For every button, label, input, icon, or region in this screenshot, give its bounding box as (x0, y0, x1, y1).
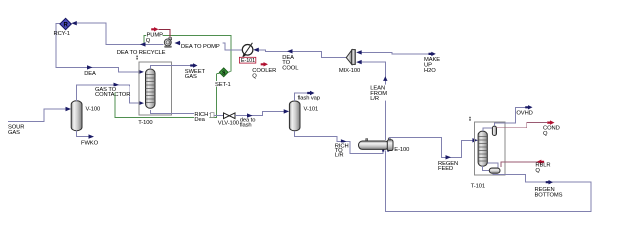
svg-text:DEA TO POMP: DEA TO POMP (181, 44, 220, 50)
wire DEA TO COOL (MIX-100 to E-101) (253, 48, 346, 58)
svg-text:H2O: H2O (424, 68, 436, 74)
heat exchanger E-100 (359, 138, 394, 152)
svg-text:L/R: L/R (370, 96, 379, 102)
label RICH TO L/R (334, 142, 349, 158)
label MAKE UP H2O (424, 57, 440, 74)
label LEAN FROM L/R (370, 85, 387, 102)
svg-text:T-100: T-100 (138, 120, 152, 126)
label RICH Dea (194, 111, 210, 123)
wire RICH Dea (T-100 bottoms to VLV-100) (150, 110, 223, 116)
wire dea to flash (VLV-100 to V-101) (235, 109, 289, 118)
wire OVHD (T-101 overhead) (495, 105, 533, 126)
separator V-100 (71, 101, 82, 131)
svg-text:MIX-100: MIX-100 (339, 68, 360, 74)
svg-text:E-101: E-101 (241, 58, 255, 64)
mixer MIX-100 (346, 50, 355, 65)
label DEA TO RECYCLE (117, 49, 168, 56)
label E-101 (red box) (239, 57, 255, 64)
set attach nub on rich line (211, 113, 214, 118)
svg-text:FEED: FEED (438, 166, 453, 172)
flash drum V-101 (289, 101, 300, 131)
svg-text:DEA TO RECYCLE: DEA TO RECYCLE (117, 50, 166, 56)
svg-text:RCY-1: RCY-1 (54, 31, 70, 37)
valve VLV-100 (224, 113, 236, 119)
SET operation SET-1 (219, 68, 228, 77)
label DEA TO COOL (282, 54, 299, 72)
recycle RCY-1 (60, 18, 71, 29)
node mark above T-101 box (469, 117, 471, 121)
svg-text:T-101: T-101 (471, 184, 485, 190)
label COND Q (543, 125, 560, 137)
pump PUMP (164, 38, 171, 48)
svg-text:L/R: L/R (335, 153, 344, 159)
svg-text:Dea: Dea (194, 117, 205, 123)
energy stream RBLR Q (501, 160, 544, 167)
svg-text:COOL: COOL (282, 65, 299, 71)
wire SWEET GAS (T-100 overhead) (151, 63, 198, 69)
wire REGEN BOTTOMS (T-101 bottoms to E-100 shell) (386, 151, 591, 212)
label SOUR GAS (8, 125, 24, 136)
label PUMP Q (146, 32, 163, 44)
label SWEET GAS (185, 69, 206, 80)
label SET-1 (215, 81, 231, 88)
svg-text:flash: flash (240, 122, 252, 128)
wire DEA (RCY-1 to T-100 top) (56, 24, 144, 74)
energy stream PUMP Q (151, 27, 170, 37)
svg-text:VLV-100: VLV-100 (218, 121, 239, 127)
wire DEA TO RECYCLE (pump to RCY-1) (71, 21, 163, 44)
label REGEN FEED (438, 161, 458, 172)
svg-text:Q: Q (146, 38, 151, 44)
wire FWKO (V-100 bottoms) (77, 131, 95, 139)
svg-text:Q: Q (543, 131, 548, 137)
wire REGEN FEED (E-100 tube out to T-101) (390, 137, 478, 159)
svg-text:V-100: V-100 (86, 106, 101, 112)
svg-text:GAS: GAS (8, 130, 20, 136)
energy stream COOLER Q (261, 62, 268, 66)
label REGEN BOTTOMS (535, 187, 563, 198)
wire MAKE UP H2O (to MIX-100) (356, 50, 436, 56)
green SET link A (SET-1 to DEA TO RECYCLE stream) (140, 36, 231, 73)
green SET link B (SET-1 to GAS TO CONTACTOR stream) (115, 73, 220, 117)
column T-101 (478, 131, 487, 166)
regenerator sub-flowsheet box T-101 (475, 122, 505, 175)
svg-text:BOTTOMS: BOTTOMS (535, 192, 563, 198)
svg-text:OVHD: OVHD (516, 111, 532, 117)
label GAS TO CONTACTOR (95, 86, 131, 98)
svg-text:Q: Q (535, 168, 540, 174)
wire RICH TO L/R (V-101 bottoms to E-100) (295, 131, 384, 154)
wire DEA TO POMP (E-101 to pump) (175, 41, 243, 50)
contactor sub-flowsheet box T-100 (139, 62, 172, 115)
label DEA TO POMP (181, 42, 223, 50)
column T-100 (146, 69, 156, 108)
svg-text:flash vap: flash vap (298, 96, 320, 102)
label COOLER Q (252, 68, 276, 80)
node mark below DEA TO RECYCLE label (136, 56, 138, 60)
condenser (T-101 internal) (483, 126, 497, 135)
svg-text:Q: Q (252, 74, 257, 80)
svg-text:CONTACTOR: CONTACTOR (95, 92, 130, 98)
label RBLR Q (535, 162, 550, 174)
label dea to flash (240, 117, 256, 128)
energy stream COND Q (497, 120, 555, 127)
svg-text:SET-1: SET-1 (215, 82, 231, 88)
wire LEAN FROM L/R (E-100 shell out to MIX-100) (356, 60, 387, 140)
cooler E-101 (242, 43, 253, 58)
svg-text:GAS: GAS (185, 74, 197, 80)
reboiler (T-101 internal) (483, 163, 500, 173)
wire flash vap (V-101 overhead) (295, 91, 315, 101)
svg-text:DEA: DEA (84, 71, 96, 77)
svg-text:V-101: V-101 (304, 106, 319, 112)
svg-text:E-100: E-100 (394, 147, 409, 153)
wire GAS TO CONTACTOR (V-100 to T-100 bottom) (77, 83, 144, 106)
wire SOUR GAS (feed to V-100) (8, 107, 71, 122)
svg-text:FWKO: FWKO (81, 141, 99, 147)
